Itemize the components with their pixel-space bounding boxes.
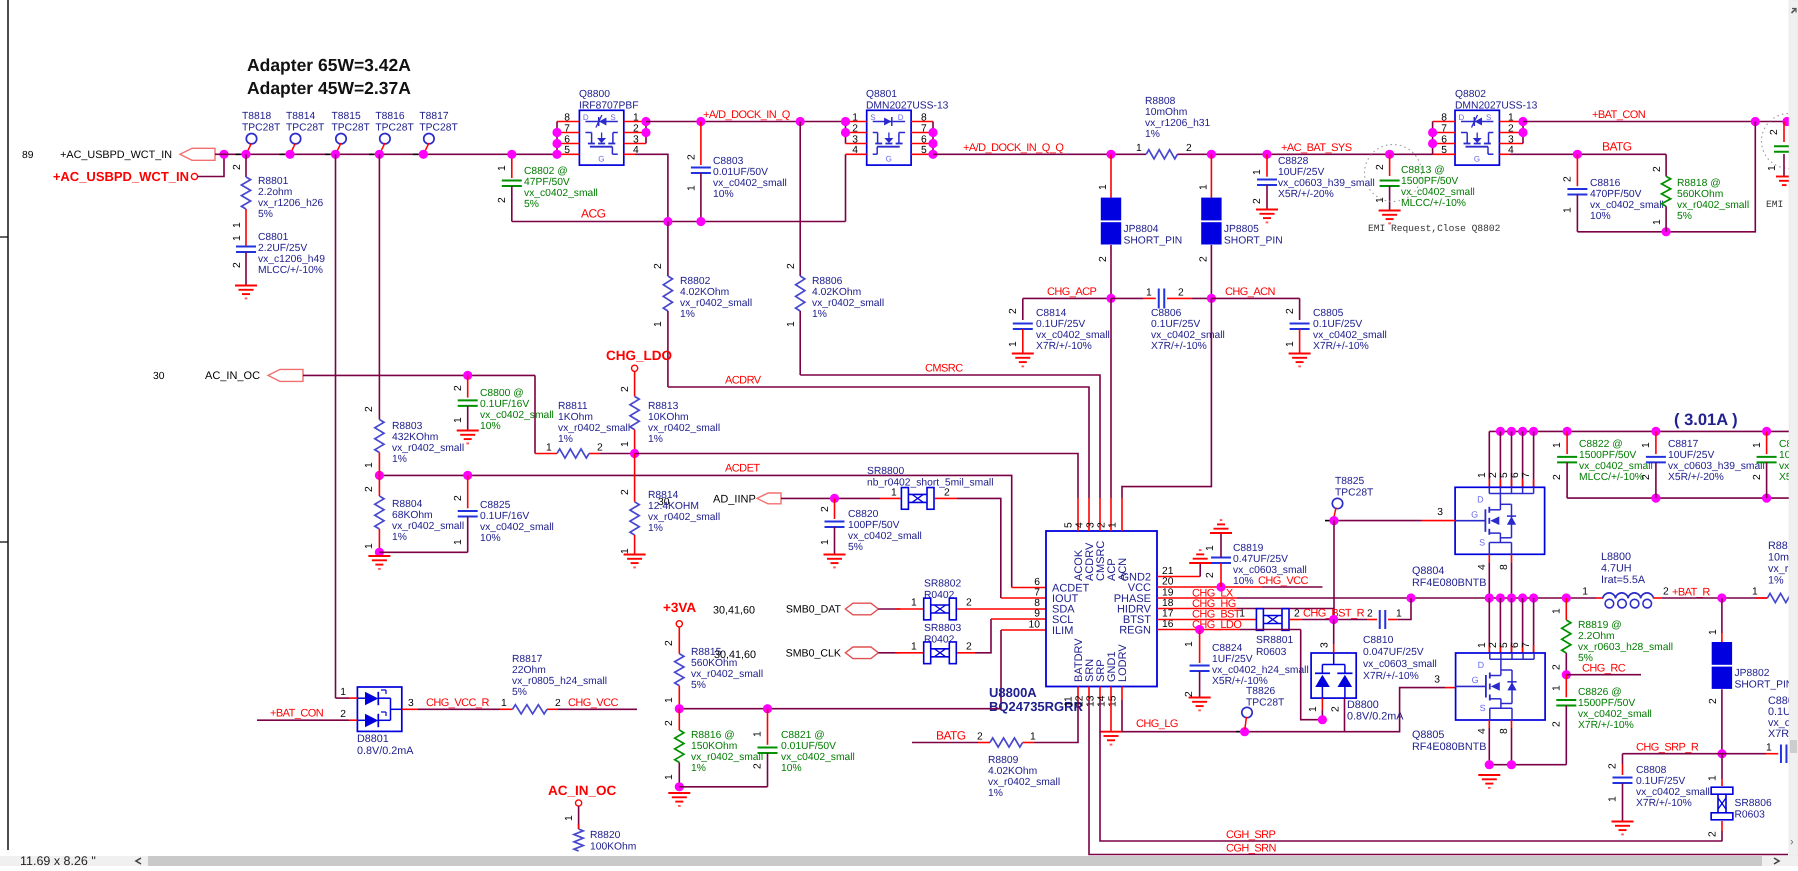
junction xyxy=(841,128,850,137)
wire xyxy=(1301,630,1323,720)
wire xyxy=(799,311,801,375)
svg-text:17: 17 xyxy=(1162,609,1174,620)
junction xyxy=(1106,294,1115,303)
wire xyxy=(467,375,469,397)
svg-text:0.1UF/25V: 0.1UF/25V xyxy=(1313,319,1362,330)
svg-text:2: 2 xyxy=(620,489,631,495)
svg-text:1: 1 xyxy=(1582,587,1588,598)
svg-text:C8814: C8814 xyxy=(1036,308,1067,319)
ground partial xyxy=(1776,176,1792,178)
svg-text:1: 1 xyxy=(911,641,917,652)
ground GND1 xyxy=(1110,700,1112,732)
svg-text:TPC28T: TPC28T xyxy=(419,123,458,134)
svg-text:0.8V/0.2mA: 0.8V/0.2mA xyxy=(1347,711,1404,723)
svg-text:2: 2 xyxy=(820,506,831,512)
svg-text:D8800: D8800 xyxy=(1347,699,1379,711)
svg-text:1: 1 xyxy=(232,222,243,228)
svg-text:C8800 @: C8800 @ xyxy=(480,388,524,399)
svg-text:1: 1 xyxy=(1008,341,1019,347)
svg-text:vx_c0402_small: vx_c0402_small xyxy=(1036,330,1110,341)
svg-text:R8802: R8802 xyxy=(680,276,711,287)
junction xyxy=(1518,117,1527,126)
svg-text:AD_IINP: AD_IINP xyxy=(713,494,756,506)
svg-text:vx_c0402_small: vx_c0402_small xyxy=(848,531,922,542)
svg-text:TPC28T: TPC28T xyxy=(332,123,371,134)
wire xyxy=(578,806,580,829)
svg-text:R8803: R8803 xyxy=(392,421,423,432)
svg-text:vx_r0402_small: vx_r0402_small xyxy=(812,298,884,309)
wire SRP xyxy=(1100,700,1722,841)
junction xyxy=(1717,749,1726,758)
svg-text:RF4E080BNTB: RF4E080BNTB xyxy=(1412,577,1486,589)
junction xyxy=(675,782,684,791)
svg-text:1500PF/50V: 1500PF/50V xyxy=(1578,698,1635,709)
junction xyxy=(1507,760,1516,769)
svg-text:1: 1 xyxy=(453,417,464,423)
svg-text:2: 2 xyxy=(977,732,983,743)
svg-text:3: 3 xyxy=(1320,642,1331,648)
wire xyxy=(845,154,847,221)
svg-text:C8821 @: C8821 @ xyxy=(781,730,825,741)
wire xyxy=(1665,154,1667,176)
wire gate Q8800 xyxy=(635,154,668,221)
svg-text:1: 1 xyxy=(1752,442,1763,448)
wire xyxy=(378,453,380,476)
svg-text:MLCC/+/-10%: MLCC/+/-10% xyxy=(1579,472,1644,483)
svg-text:89: 89 xyxy=(22,150,34,161)
wire xyxy=(678,709,680,730)
svg-text:2: 2 xyxy=(653,263,664,269)
svg-text:1: 1 xyxy=(1477,642,1488,648)
svg-text:Adapter 45W=2.37A: Adapter 45W=2.37A xyxy=(247,78,411,98)
svg-text:1%: 1% xyxy=(691,763,706,774)
svg-text:2: 2 xyxy=(1205,572,1216,578)
junction xyxy=(696,217,705,226)
svg-text:2: 2 xyxy=(232,164,243,170)
svg-text:T8826: T8826 xyxy=(1246,686,1275,697)
wire xyxy=(467,475,469,508)
svg-text:R8811: R8811 xyxy=(558,401,588,412)
svg-text:C8824: C8824 xyxy=(1212,643,1243,654)
svg-text:RF4E080BNTB: RF4E080BNTB xyxy=(1412,741,1486,753)
junction xyxy=(830,494,839,503)
svg-text:T8818: T8818 xyxy=(242,111,271,122)
svg-text:1: 1 xyxy=(1552,442,1563,448)
sheet border tick xyxy=(0,236,8,238)
right scrollbar icon xyxy=(1792,9,1796,13)
junction xyxy=(796,117,805,126)
ground xyxy=(368,555,390,557)
svg-text:2: 2 xyxy=(1552,721,1563,727)
svg-text:D: D xyxy=(898,113,904,122)
tp dash xyxy=(1325,520,1330,522)
junction xyxy=(1485,760,1494,769)
wire +BAT top rail xyxy=(1489,430,1798,432)
svg-text:0.047UF/25V: 0.047UF/25V xyxy=(1363,647,1424,658)
svg-text:R8808: R8808 xyxy=(1145,96,1176,107)
svg-text:1: 1 xyxy=(653,321,664,327)
svg-text:vx_r0402_small: vx_r0402_small xyxy=(558,423,630,434)
svg-text:3: 3 xyxy=(1086,522,1097,528)
svg-text:CHG_VCC: CHG_VCC xyxy=(1258,575,1309,587)
svg-text:14: 14 xyxy=(1097,695,1108,707)
ground xyxy=(1379,210,1401,212)
svg-text:ACDET: ACDET xyxy=(725,463,760,475)
pin6 wire xyxy=(1012,587,1046,589)
svg-text:1: 1 xyxy=(1030,732,1036,743)
junction xyxy=(1207,150,1216,159)
svg-text:1: 1 xyxy=(911,598,917,609)
svg-text:1: 1 xyxy=(1205,545,1216,551)
junction xyxy=(507,150,516,159)
wire SMB0_CLK xyxy=(878,652,900,654)
ground xyxy=(235,285,257,287)
junction xyxy=(285,150,294,159)
svg-text:1: 1 xyxy=(497,165,508,171)
wire xyxy=(1302,619,1367,621)
svg-text:2: 2 xyxy=(1008,308,1019,314)
svg-text:R8804: R8804 xyxy=(392,499,423,510)
wire pin Q8804 xyxy=(1522,431,1524,487)
svg-text:JP8802: JP8802 xyxy=(1735,668,1770,679)
svg-text:6: 6 xyxy=(1510,642,1521,648)
junction xyxy=(663,217,672,226)
svg-text:2: 2 xyxy=(1752,474,1763,480)
svg-text:11.69 x 8.26 ": 11.69 x 8.26 " xyxy=(20,854,96,866)
svg-text:2: 2 xyxy=(1294,609,1300,620)
svg-text:30,41,60: 30,41,60 xyxy=(713,605,755,617)
junction xyxy=(1529,593,1538,602)
svg-text:1: 1 xyxy=(1767,165,1778,171)
svg-text:2: 2 xyxy=(1488,642,1499,648)
svg-text:vx_r0402_small: vx_r0402_small xyxy=(392,443,464,454)
wire ACP xyxy=(1110,298,1112,498)
svg-text:1%: 1% xyxy=(392,454,407,465)
svg-text:vx_c0402_small: vx_c0402_small xyxy=(713,178,787,189)
svg-text:2: 2 xyxy=(1641,474,1652,480)
wire pin Q8804 xyxy=(1533,431,1535,487)
wire xyxy=(1398,598,1411,620)
wire xyxy=(1022,298,1024,320)
junction xyxy=(1262,150,1271,159)
svg-text:SMB0_CLK: SMB0_CLK xyxy=(786,647,841,659)
wire xyxy=(336,697,350,699)
svg-text:1: 1 xyxy=(364,543,375,549)
transistor Q8804 xyxy=(1455,487,1545,554)
junction xyxy=(763,704,772,713)
node wire ILIM row xyxy=(679,708,1001,710)
svg-text:0.1UF/25V: 0.1UF/25V xyxy=(1036,319,1085,330)
svg-text:SHORT_PIN: SHORT_PIN xyxy=(1224,236,1283,247)
svg-text:C8820: C8820 xyxy=(848,509,879,520)
svg-text:AC_IN_OC: AC_IN_OC xyxy=(205,370,260,382)
wire xyxy=(1022,329,1024,353)
svg-text:4.02KOhm: 4.02KOhm xyxy=(812,287,861,298)
svg-text:U8800A: U8800A xyxy=(989,685,1037,700)
svg-text:S: S xyxy=(1486,113,1491,122)
svg-text:vx_c0402_small: vx_c0402_small xyxy=(1579,461,1653,472)
wire BATG2 xyxy=(912,742,978,744)
svg-text:432KOhm: 432KOhm xyxy=(392,432,438,443)
junction xyxy=(1385,150,1394,159)
diode D8801 xyxy=(357,687,401,731)
svg-text:2: 2 xyxy=(1098,256,1109,262)
svg-text:+AC_USBPD_WCT_IN: +AC_USBPD_WCT_IN xyxy=(53,169,189,184)
svg-text:10: 10 xyxy=(1029,620,1041,631)
svg-text:C8805: C8805 xyxy=(1313,308,1344,319)
svg-text:C8822 @: C8822 @ xyxy=(1579,439,1623,450)
wire xyxy=(1721,689,1723,753)
pin7 wire xyxy=(1001,597,1046,599)
svg-text:1: 1 xyxy=(1552,608,1563,614)
svg-text:2: 2 xyxy=(664,720,675,726)
wire xyxy=(245,154,247,177)
svg-text:2: 2 xyxy=(1367,609,1373,620)
junction xyxy=(1518,427,1527,436)
wire xyxy=(834,527,836,554)
svg-text:10%: 10% xyxy=(781,763,802,774)
svg-text:2: 2 xyxy=(664,640,675,646)
svg-text:2: 2 xyxy=(1563,176,1574,182)
ground xyxy=(457,430,479,432)
svg-text:1: 1 xyxy=(687,185,698,191)
wire xyxy=(634,430,636,454)
svg-text:Q8802: Q8802 xyxy=(1455,89,1486,100)
svg-text:( 3.01A ): ( 3.01A ) xyxy=(1674,411,1738,429)
svg-text:CGH_SRN: CGH_SRN xyxy=(1226,843,1277,855)
junction xyxy=(1518,593,1527,602)
wire xyxy=(245,209,247,246)
svg-text:R8801: R8801 xyxy=(258,176,289,187)
svg-text:2: 2 xyxy=(786,263,797,269)
wire xyxy=(198,154,224,176)
svg-text:CHG_RC: CHG_RC xyxy=(1582,663,1626,675)
svg-text:TPC28T: TPC28T xyxy=(375,123,414,134)
svg-text:Irat=5.5A: Irat=5.5A xyxy=(1601,574,1646,586)
svg-text:LODRV: LODRV xyxy=(1117,644,1129,682)
svg-text:1500PF/50V: 1500PF/50V xyxy=(1401,176,1458,187)
svg-text:Q8805: Q8805 xyxy=(1412,729,1444,741)
ground xyxy=(824,554,846,556)
junction xyxy=(1329,516,1338,525)
junction xyxy=(1329,615,1338,624)
svg-text:2: 2 xyxy=(364,486,375,492)
svg-text:1: 1 xyxy=(1708,775,1719,781)
svg-text:vx_r0402_small: vx_r0402_small xyxy=(648,512,720,523)
junction xyxy=(641,128,650,137)
junction xyxy=(641,117,650,126)
wire xyxy=(1665,206,1667,232)
svg-text:2: 2 xyxy=(1285,308,1296,314)
wire xyxy=(558,708,637,710)
pin2 SR8801 xyxy=(1290,619,1302,621)
svg-text:vx_r0402_small: vx_r0402_small xyxy=(1677,200,1749,211)
wire xyxy=(1783,122,1785,143)
wire xyxy=(1721,598,1723,633)
svg-text:MLCC/+/-10%: MLCC/+/-10% xyxy=(258,265,323,276)
svg-text:C8813 @: C8813 @ xyxy=(1401,165,1445,176)
wire pin Q8805 xyxy=(1499,598,1501,653)
svg-text:1: 1 xyxy=(546,442,552,453)
wire +A/D_DOCK_IN_Q_Q xyxy=(933,153,1146,155)
wire T8825 riser xyxy=(1333,521,1335,620)
svg-text:CGH_SRP: CGH_SRP xyxy=(1226,829,1276,841)
pin9 wire xyxy=(991,618,1046,620)
svg-text:2: 2 xyxy=(364,406,375,412)
svg-text:2.2ohm: 2.2ohm xyxy=(258,187,292,198)
svg-text:2: 2 xyxy=(1552,474,1563,480)
wire xyxy=(1299,298,1301,320)
wire ILIM xyxy=(1000,630,1002,709)
svg-text:X7R/+/-10%: X7R/+/-10% xyxy=(1151,341,1207,352)
pin 5 top xyxy=(1077,498,1079,531)
junction xyxy=(1507,427,1516,436)
junction xyxy=(696,117,705,126)
svg-text:10UF/25V: 10UF/25V xyxy=(1668,450,1714,461)
svg-text:C8826 @: C8826 @ xyxy=(1578,687,1622,698)
wire xyxy=(1220,563,1222,587)
wire BATG xyxy=(1510,153,1666,155)
pin 11 bottom xyxy=(1077,687,1079,701)
wire xyxy=(379,551,467,553)
svg-text:1: 1 xyxy=(1239,609,1245,620)
svg-text:2: 2 xyxy=(453,495,464,501)
wire REGN xyxy=(1157,629,1240,631)
svg-text:2: 2 xyxy=(687,154,698,160)
svg-text:D: D xyxy=(1459,113,1465,122)
svg-text:TPC28T: TPC28T xyxy=(1335,488,1374,499)
junction xyxy=(331,150,340,159)
svg-text:2: 2 xyxy=(497,197,508,203)
svg-text:3: 3 xyxy=(1437,507,1443,518)
svg-text:vx_c0402_small: vx_c0402_small xyxy=(480,522,554,533)
svg-text:AC_IN_OC: AC_IN_OC xyxy=(548,783,617,798)
wire xyxy=(700,173,702,222)
svg-text:2: 2 xyxy=(1552,664,1563,670)
svg-text:12: 12 xyxy=(1075,695,1086,707)
svg-text:2: 2 xyxy=(453,385,464,391)
ground xyxy=(1189,697,1211,699)
svg-text:vx_c0402_small: vx_c0402_small xyxy=(524,188,598,199)
svg-text:G: G xyxy=(1472,675,1479,685)
svg-text:vx_r0402_small: vx_r0402_small xyxy=(988,777,1060,788)
transistor Q8805 xyxy=(1456,653,1546,720)
wire xyxy=(467,406,469,430)
wire pin Q8805 xyxy=(1533,598,1535,653)
svg-text:G: G xyxy=(598,155,604,164)
junction xyxy=(1428,139,1437,148)
junction xyxy=(1651,494,1660,503)
junction xyxy=(552,139,561,148)
wire pin Q8804 xyxy=(1511,431,1513,487)
svg-text:vx_c0402_small: vx_c0402_small xyxy=(781,752,855,763)
svg-text:19: 19 xyxy=(1162,588,1174,599)
svg-text:22Ohm: 22Ohm xyxy=(512,665,546,676)
svg-text:1: 1 xyxy=(1146,287,1152,298)
svg-text:Q8801: Q8801 xyxy=(866,89,897,100)
wire xyxy=(678,762,680,786)
junction xyxy=(1507,593,1516,602)
wire ACN xyxy=(1122,298,1211,498)
svg-text:5%: 5% xyxy=(691,680,706,691)
junction xyxy=(928,139,937,148)
wire xyxy=(1199,671,1201,697)
svg-text:vx_c0603_small: vx_c0603_small xyxy=(1363,659,1437,670)
svg-text:1: 1 xyxy=(1752,587,1758,598)
wire VCC xyxy=(1157,586,1262,588)
junction xyxy=(1751,117,1760,126)
svg-text:18: 18 xyxy=(1162,598,1174,609)
ground up xyxy=(1189,562,1211,564)
wire xyxy=(1210,245,1212,299)
svg-text:ACDRV: ACDRV xyxy=(725,375,762,387)
svg-text:1: 1 xyxy=(1252,169,1263,175)
pin 3 stub Q8804 xyxy=(1422,520,1456,522)
junction xyxy=(1562,593,1571,602)
svg-text:Q8800: Q8800 xyxy=(579,89,610,100)
ground up xyxy=(1210,532,1232,534)
junction xyxy=(1207,294,1216,303)
svg-text:vx_c0402_small: vx_c0402_small xyxy=(1636,787,1710,798)
wire xyxy=(1432,122,1434,155)
wire xyxy=(511,186,513,222)
svg-text:CHG_VCC: CHG_VCC xyxy=(568,697,619,709)
junction xyxy=(675,704,684,713)
pin 15 bottom xyxy=(1121,687,1123,701)
svg-text:1: 1 xyxy=(620,441,631,447)
svg-text:10KOhm: 10KOhm xyxy=(648,412,689,423)
wire ACDET xyxy=(379,475,1011,587)
svg-text:0.1UF/25V: 0.1UF/25V xyxy=(1636,776,1685,787)
wire xyxy=(556,122,558,155)
wire cap bottom rail xyxy=(1567,497,1798,499)
svg-text:1: 1 xyxy=(620,548,631,554)
svg-text:SR8806: SR8806 xyxy=(1735,798,1772,809)
wire xyxy=(1522,122,1524,144)
junction xyxy=(1496,593,1505,602)
svg-text:1: 1 xyxy=(1563,207,1574,213)
op-amp U8800A body xyxy=(1046,531,1157,687)
svg-text:5%: 5% xyxy=(512,687,527,698)
scroll left arrow xyxy=(136,858,141,864)
svg-text:Adapter 65W=3.42A: Adapter 65W=3.42A xyxy=(247,55,411,75)
svg-text:G: G xyxy=(886,155,892,164)
wire xyxy=(1721,821,1723,831)
svg-text:R8818 @: R8818 @ xyxy=(1677,178,1721,189)
wire AD_IINP xyxy=(781,497,880,499)
svg-text:7: 7 xyxy=(1034,588,1040,599)
wire xyxy=(957,498,1001,598)
svg-text:BATG: BATG xyxy=(1602,140,1632,154)
wire +BAT_CON xyxy=(1523,121,1787,123)
pin 13 bottom xyxy=(1099,687,1101,701)
wire xyxy=(1110,245,1112,299)
junction xyxy=(1651,427,1660,436)
wire ACG xyxy=(512,221,846,223)
svg-text:+AC_USBPD_WCT_IN: +AC_USBPD_WCT_IN xyxy=(60,149,172,161)
svg-text:C8808: C8808 xyxy=(1636,765,1667,776)
wire CMSRC xyxy=(800,375,1100,498)
junction xyxy=(1662,227,1671,236)
wire xyxy=(1199,630,1201,664)
svg-text:7: 7 xyxy=(1521,642,1532,648)
svg-text:R8806: R8806 xyxy=(812,276,843,287)
ground xyxy=(1478,774,1500,776)
svg-text:vx_c0402_small: vx_c0402_small xyxy=(1590,200,1664,211)
svg-text:1%: 1% xyxy=(648,434,663,445)
svg-text:0.1UF/25V: 0.1UF/25V xyxy=(1151,319,1200,330)
wire right vertical xyxy=(1577,122,1755,232)
